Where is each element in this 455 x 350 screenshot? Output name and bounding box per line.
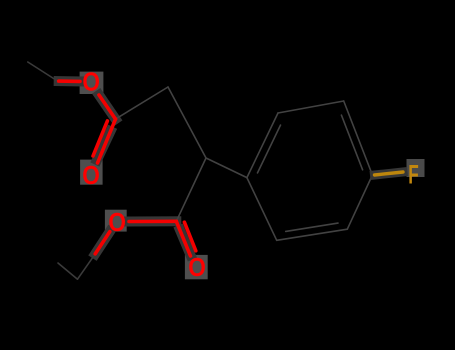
benzene ring edge NE-E	[344, 101, 373, 175]
smear under bond O2-C2	[129, 216, 176, 226]
svg-text:O: O	[188, 252, 206, 282]
double bond C2=O2d line 2	[184, 222, 195, 251]
smear under bond O2-Et2	[95, 232, 110, 254]
benzene ring edge E-SE	[347, 175, 372, 229]
bond Ca-Cb (CH2 to central CH)	[168, 87, 206, 158]
aromatic inner line NE-E	[341, 115, 362, 170]
bond ring E vertex to F	[375, 172, 404, 175]
smear under bond Et1-O1	[59, 76, 80, 86]
benzene ring edge NW-NE	[278, 101, 344, 113]
svg-text:O: O	[82, 160, 100, 190]
smear under double bond C1=O1d	[97, 131, 111, 160]
smear under bond O1-C1	[99, 95, 116, 119]
double bond C2=O2d line 1	[176, 221, 190, 256]
bond Cb-C2 (central CH to carbonyl C2)	[176, 158, 206, 221]
bond O2-Et2 dark half	[78, 254, 96, 279]
double bond C1=O1d line 1	[98, 119, 116, 163]
svg-text:O: O	[108, 207, 126, 237]
svg-text:F: F	[408, 159, 419, 190]
benzene ring edge SE-SW	[277, 229, 348, 240]
benzene ring edge W-NW	[247, 113, 278, 178]
benzene ring edge SW-W	[247, 178, 277, 241]
bond Me1-Et1 (ethyl CH3-CH2)	[28, 62, 58, 81]
double bond C1=O1d line 2	[93, 121, 107, 156]
smear under double bond C2=O2d	[180, 230, 191, 255]
bond O2-C2	[129, 220, 176, 224]
bond Et1-O1	[59, 79, 80, 83]
aromatic inner line SE-SW	[286, 223, 338, 231]
oxygen bonds (red)	[59, 81, 196, 256]
aromatic inner line W-NW	[258, 125, 281, 173]
carbon skeleton (dark gray)	[28, 62, 373, 279]
jpeg halo box O1d	[80, 160, 103, 185]
bond O2-Et2 red half	[95, 232, 110, 254]
jpeg halo box O2d	[185, 255, 208, 279]
svg-text:O: O	[82, 66, 100, 96]
jpeg halo box F	[407, 159, 425, 177]
bond Cb-ipso (central CH to ring)	[206, 158, 247, 178]
jpeg halo box O2	[105, 210, 127, 232]
red bond smear underlays	[59, 81, 191, 255]
bond C1-Ca (carbonyl C to CH2)	[116, 87, 169, 119]
bond Et2-Me2 (ethyl CH2-CH3)	[58, 263, 78, 279]
jpeg halo box O1	[80, 72, 104, 94]
bond O1-C1	[99, 95, 116, 119]
bond ring-F jpeg smear underlay	[375, 172, 404, 175]
